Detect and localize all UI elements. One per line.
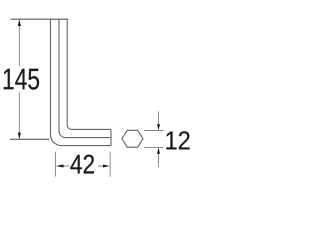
label 12 xyxy=(166,131,189,149)
extension line: left of 42 dimension xyxy=(54,152,56,177)
dimension line 42 (horizontal, interrupted by label) xyxy=(63,165,103,167)
arrowhead up of 145 dimension xyxy=(18,20,21,26)
dimension line 145 (vertical, interrupted by label) xyxy=(18,20,20,138)
hexagon (12mm across flats of hex key) xyxy=(122,130,143,147)
extension line: top of 145 dimension (caps top of key) xyxy=(11,18,69,20)
arrowhead right of 42 dimension xyxy=(103,165,110,168)
leader line: bottom of 12 dimension xyxy=(144,146,163,148)
label 145 xyxy=(4,69,39,90)
arrowhead left of 42 dimension xyxy=(56,165,64,168)
arrowhead down of 145 dimension xyxy=(18,133,21,139)
hex key body: inner right edge into top edge of foot xyxy=(67,19,111,129)
hex key body: outer left edge with rounded elbow into bottom edge xyxy=(51,19,112,145)
hex key body: middle face line of hex rod xyxy=(59,19,111,137)
extension line: bottom of 145 dimension xyxy=(10,138,49,140)
dimension line 12 upper segment (arrow points down) xyxy=(158,111,160,124)
leader line: top of 12 dimension xyxy=(144,130,164,132)
extension line: right of 42 dimension xyxy=(109,152,111,177)
hex key body: foot end cap xyxy=(110,129,112,145)
dimension line 12 lower segment (arrow points up) xyxy=(158,153,160,167)
arrowhead down of 12 dimension xyxy=(157,124,160,130)
label 42 xyxy=(70,155,94,174)
arrowhead up of 12 dimension xyxy=(157,148,160,154)
